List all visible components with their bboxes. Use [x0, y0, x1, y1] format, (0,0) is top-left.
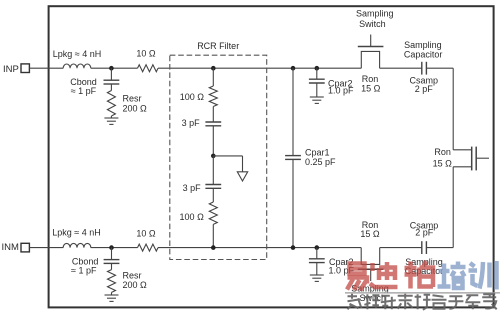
watermark row2 char 3 [381, 296, 396, 310]
wire [212, 126, 214, 156]
svg-text:Ron: Ron [434, 147, 451, 157]
svg-text:Resr: Resr [123, 94, 142, 104]
svg-text:3 pF: 3 pF [182, 118, 201, 128]
watermark row1 red char 2 [370, 262, 398, 287]
resistor Resr (top) [107, 91, 115, 116]
capacitor 3pF (top) [205, 121, 221, 123]
wire switch to Csamp (bottom) [380, 247, 422, 249]
wire INM to Lpkg [29, 247, 63, 249]
node ladder mid [211, 154, 216, 159]
wire [212, 107, 214, 123]
wire to common arrow [213, 155, 242, 157]
wire 10ohm to switch (bottom) [158, 247, 361, 249]
wire [212, 188, 214, 202]
ground Resr (top) [104, 117, 118, 119]
svg-text:15 Ω: 15 Ω [360, 229, 380, 239]
node ladder bottom [211, 245, 216, 250]
svg-text:Sampling: Sampling [356, 9, 394, 19]
wire [212, 156, 214, 185]
capacitor Cbond (top) [110, 68, 112, 80]
svg-text:INP: INP [3, 64, 19, 75]
node Cpar2 bottom [315, 245, 320, 250]
svg-text:3 pF: 3 pF [183, 183, 202, 193]
svg-text:0.25 pF: 0.25 pF [305, 157, 336, 167]
svg-text:RCR Filter: RCR Filter [197, 41, 239, 51]
resistor 10 ohm (top) [138, 65, 159, 72]
svg-text:≈ 1 pF: ≈ 1 pF [71, 266, 97, 276]
capacitor Csamp (bottom) [421, 241, 423, 254]
wire INP to Lpkg [29, 67, 63, 69]
svg-text:1.0 pF: 1.0 pF [328, 86, 354, 96]
gate bar (bottom switch) [358, 268, 384, 270]
capacitor Csamp (top) [421, 62, 423, 75]
watermark row2 char 9 [482, 294, 497, 309]
gate lead (right) [476, 157, 489, 159]
watermark row2 char 6 [432, 295, 447, 309]
svg-text:2 pF: 2 pF [415, 84, 434, 94]
svg-text:Lpkg ≈ 4 nH: Lpkg ≈ 4 nH [52, 228, 100, 238]
INP pad [21, 64, 29, 73]
RCR filter dashed box [170, 55, 267, 259]
svg-text:200 Ω: 200 Ω [123, 104, 148, 114]
transistor sampling switch (bottom) [361, 248, 380, 265]
wire switch to Csamp (top) [380, 67, 422, 69]
capacitor Cpar1 [292, 68, 294, 155]
watermark row2 char 1 [348, 294, 362, 310]
watermark row1 blue char 4 [438, 262, 466, 289]
gate bar (top switch) [358, 46, 384, 48]
ground Cpar2 (bottom) [310, 274, 324, 276]
common-mode arrow (open triangle) [237, 172, 247, 181]
inductor Lpkg (bottom) [63, 243, 91, 247]
watermark row2 char 5 [415, 294, 431, 310]
gate lead (top switch) [370, 35, 372, 47]
svg-text:2 pF: 2 pF [415, 227, 434, 237]
resistor 100 ohm (top) [209, 86, 217, 107]
watermark row2 char 7 [448, 296, 463, 309]
transistor Ron (right) drain lead [453, 149, 471, 151]
capacitor 3pF (bottom) [205, 184, 221, 186]
wire Csamp to corner (bottom) [426, 247, 453, 249]
node ladder top [211, 66, 216, 71]
svg-text:15 Ω: 15 Ω [433, 159, 453, 169]
svg-text:10 Ω: 10 Ω [136, 228, 156, 238]
svg-text:10 Ω: 10 Ω [136, 49, 156, 59]
watermark row1 red char 3 [405, 261, 434, 289]
watermark row2 char 2 [364, 294, 380, 309]
capacitor Cpar2 (top) [316, 68, 318, 79]
svg-text:≈ 1 pF: ≈ 1 pF [71, 86, 97, 96]
channel bar (right) [471, 147, 473, 171]
svg-text:200 Ω: 200 Ω [123, 280, 148, 290]
svg-text:100 Ω: 100 Ω [180, 212, 205, 222]
svg-text:INM: INM [2, 242, 20, 253]
wire [212, 224, 214, 247]
gate bar (right) [475, 147, 477, 171]
watermark row2 char 4 [398, 294, 413, 310]
svg-text:Lpkg ≈ 4 nH: Lpkg ≈ 4 nH [53, 49, 101, 59]
watermark row2 char 8 [465, 295, 480, 309]
node junction Cbond bottom [109, 245, 114, 250]
node Cpar2 top [315, 66, 320, 71]
transistor sampling switch (top) [361, 51, 379, 68]
watermark row1 red char 1 [347, 264, 367, 291]
svg-text:Capacitor: Capacitor [404, 49, 443, 59]
node Cpar1 top [291, 66, 296, 71]
ground Cpar2 (top) [310, 96, 324, 98]
wire right vertical upper [452, 68, 454, 150]
capacitor Cbond (bottom) [111, 248, 113, 260]
resistor 100 ohm (bottom) [209, 202, 217, 224]
wire Lpkg to node [91, 67, 138, 69]
wire Lpkg to node (bottom) [91, 247, 138, 249]
source lead (right) [453, 166, 471, 168]
resistor Resr (bottom) [108, 270, 116, 293]
wire Csamp to corner (top) [426, 67, 453, 69]
node junction Cbond top [109, 66, 114, 71]
svg-text:Ron: Ron [362, 74, 379, 84]
inductor Lpkg (top) [63, 64, 91, 68]
wire 10ohm to switch (top) [158, 67, 361, 69]
watermark underline [345, 292, 500, 294]
wire ladder top lead [212, 68, 214, 86]
watermark row1 blue char 5 [469, 261, 497, 290]
resistor 10 ohm (bottom) [138, 244, 159, 251]
svg-text:100 Ω: 100 Ω [180, 92, 205, 102]
INM pad [21, 243, 29, 252]
ground Resr (bottom) [105, 294, 119, 296]
node Cpar1 bottom [291, 245, 296, 250]
svg-text:Switch: Switch [359, 19, 386, 29]
wire right vertical lower [452, 167, 454, 248]
svg-text:15 Ω: 15 Ω [361, 84, 381, 94]
capacitor Cpar2 (bottom) [316, 248, 318, 259]
gate lead (bottom switch) [370, 269, 372, 281]
